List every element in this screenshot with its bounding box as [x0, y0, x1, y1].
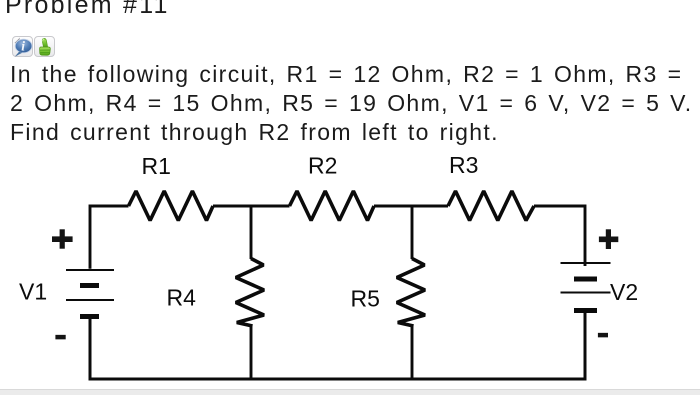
svg-text:V1: V1 [19, 279, 47, 305]
svg-text:R2: R2 [308, 153, 337, 179]
svg-text:R4: R4 [167, 285, 197, 311]
svg-text:R1: R1 [142, 153, 171, 179]
svg-text:V2: V2 [610, 279, 638, 305]
svg-text:R5: R5 [351, 286, 380, 312]
svg-text:R3: R3 [449, 152, 478, 178]
